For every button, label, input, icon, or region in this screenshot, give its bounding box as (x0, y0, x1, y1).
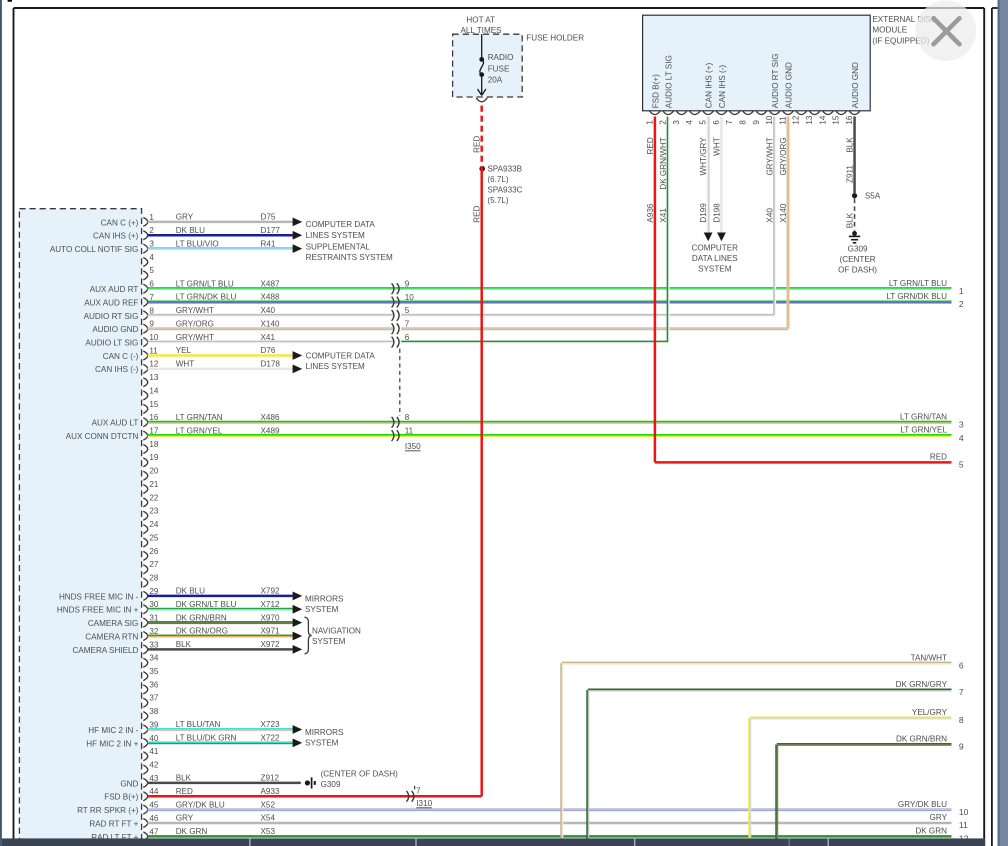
svg-text:NAVIGATION: NAVIGATION (312, 626, 361, 635)
svg-text:13: 13 (149, 373, 159, 382)
svg-text:X722: X722 (261, 734, 280, 743)
svg-text:GRY: GRY (176, 213, 194, 222)
svg-text:DK GRN/WHT: DK GRN/WHT (659, 137, 668, 189)
svg-text:GRY/WHT: GRY/WHT (176, 333, 214, 342)
svg-text:DK GRN: DK GRN (915, 826, 947, 835)
svg-text:YEL/GRY: YEL/GRY (912, 708, 948, 717)
svg-text:4: 4 (149, 253, 154, 262)
svg-text:LT BLU/DK GRN: LT BLU/DK GRN (176, 734, 237, 743)
svg-text:44: 44 (149, 787, 159, 796)
svg-text:3: 3 (959, 419, 964, 429)
svg-text:LINES SYSTEM: LINES SYSTEM (306, 231, 365, 240)
svg-text:6: 6 (712, 120, 721, 125)
svg-text:11: 11 (149, 346, 158, 355)
svg-text:X54: X54 (261, 814, 276, 823)
svg-text:10: 10 (405, 293, 415, 302)
svg-text:16: 16 (845, 115, 854, 125)
svg-text:COMPUTER DATA: COMPUTER DATA (306, 220, 376, 229)
svg-text:WHT: WHT (176, 360, 195, 369)
svg-text:2: 2 (149, 226, 154, 235)
svg-text:CAN IHS (+): CAN IHS (+) (705, 63, 714, 109)
svg-text:X53: X53 (261, 827, 276, 836)
svg-text:Z912: Z912 (261, 774, 280, 783)
svg-text:SPA933C: SPA933C (487, 186, 522, 195)
svg-text:GRY/ORG: GRY/ORG (779, 137, 788, 175)
svg-text:AUDIO RT SIG: AUDIO RT SIG (84, 312, 139, 321)
svg-text:22: 22 (149, 493, 159, 502)
svg-text:23: 23 (149, 507, 159, 516)
svg-text:RT RR SPKR (+): RT RR SPKR (+) (77, 806, 139, 815)
svg-text:BLK: BLK (176, 640, 192, 649)
svg-text:7: 7 (405, 320, 410, 329)
svg-text:6: 6 (959, 660, 964, 670)
svg-text:G309: G309 (848, 245, 868, 254)
svg-text:37: 37 (149, 694, 159, 703)
svg-text:A936: A936 (646, 203, 655, 222)
svg-text:X140: X140 (261, 319, 280, 328)
svg-text:2: 2 (959, 299, 964, 309)
svg-text:3: 3 (672, 120, 681, 125)
svg-text:RED: RED (472, 206, 481, 223)
svg-text:I350: I350 (405, 442, 421, 451)
svg-text:CAN IHS (+): CAN IHS (+) (93, 232, 139, 241)
svg-text:28: 28 (149, 573, 159, 582)
svg-text:LT GRN/DK BLU: LT GRN/DK BLU (176, 293, 237, 302)
svg-text:14: 14 (149, 386, 159, 395)
svg-text:15: 15 (832, 115, 841, 125)
svg-text:HF MIC 2 IN +: HF MIC 2 IN + (86, 739, 138, 748)
svg-text:41: 41 (149, 747, 159, 756)
svg-text:DK BLU: DK BLU (176, 226, 205, 235)
svg-text:10: 10 (959, 807, 969, 817)
svg-text:X712: X712 (261, 600, 280, 609)
svg-text:RESTRAINTS SYSTEM: RESTRAINTS SYSTEM (306, 253, 393, 262)
svg-text:12: 12 (792, 115, 801, 125)
svg-text:GND: GND (120, 779, 138, 788)
svg-text:AUDIO RT SIG: AUDIO RT SIG (771, 53, 780, 108)
svg-text:X140: X140 (779, 203, 788, 222)
svg-text:20: 20 (149, 467, 159, 476)
svg-text:AUTO COLL NOTIF SIG: AUTO COLL NOTIF SIG (50, 245, 139, 254)
svg-text:19: 19 (149, 453, 159, 462)
svg-text:11: 11 (959, 820, 968, 830)
svg-text:25: 25 (149, 533, 159, 542)
svg-text:X41: X41 (659, 208, 668, 223)
svg-text:LT GRN/YEL: LT GRN/YEL (900, 426, 947, 435)
svg-text:DATA LINES: DATA LINES (692, 254, 738, 263)
svg-text:34: 34 (149, 654, 159, 663)
svg-text:G309: G309 (321, 780, 341, 789)
svg-text:(CENTER: (CENTER (840, 255, 876, 264)
svg-text:X40: X40 (261, 306, 276, 315)
svg-text:8: 8 (959, 715, 964, 725)
svg-text:CAMERA SHIELD: CAMERA SHIELD (72, 646, 138, 655)
svg-text:10: 10 (765, 115, 774, 125)
svg-text:Z911: Z911 (846, 165, 855, 183)
svg-text:SPA933B: SPA933B (487, 165, 522, 174)
svg-text:X41: X41 (261, 333, 276, 342)
svg-text:CAN C (+): CAN C (+) (101, 218, 139, 227)
svg-text:7: 7 (959, 687, 964, 697)
svg-text:33: 33 (149, 640, 159, 649)
svg-text:LT GRN/TAN: LT GRN/TAN (176, 413, 223, 422)
svg-text:X971: X971 (261, 627, 280, 636)
svg-text:AUDIO GND: AUDIO GND (92, 325, 138, 334)
svg-text:D76: D76 (261, 346, 276, 355)
svg-text:GRY/WHT: GRY/WHT (766, 137, 775, 175)
svg-text:5: 5 (959, 460, 964, 470)
svg-text:7: 7 (416, 786, 421, 795)
svg-text:D75: D75 (261, 213, 276, 222)
svg-text:38: 38 (149, 707, 159, 716)
svg-text:DK BLU: DK BLU (176, 587, 205, 596)
svg-text:AUX AUD RT: AUX AUD RT (90, 285, 139, 294)
svg-text:X723: X723 (261, 720, 280, 729)
svg-text:TAN/WHT: TAN/WHT (911, 653, 947, 662)
svg-text:SYSTEM: SYSTEM (305, 739, 339, 748)
svg-text:HF MIC 2 IN -: HF MIC 2 IN - (88, 726, 138, 735)
svg-text:LT BLU/TAN: LT BLU/TAN (176, 720, 221, 729)
svg-text:DK GRN/BRN: DK GRN/BRN (176, 613, 227, 622)
svg-text:D178: D178 (261, 360, 281, 369)
svg-text:CAMERA SIG: CAMERA SIG (88, 619, 139, 628)
svg-text:14: 14 (818, 115, 827, 125)
svg-text:LT GRN/DK BLU: LT GRN/DK BLU (886, 292, 947, 301)
svg-text:FUSE HOLDER: FUSE HOLDER (526, 33, 584, 42)
svg-text:D177: D177 (261, 226, 281, 235)
svg-text:BLK: BLK (176, 774, 192, 783)
svg-text:A933: A933 (261, 787, 280, 796)
svg-text:29: 29 (149, 587, 159, 596)
svg-text:46: 46 (149, 814, 159, 823)
svg-text:(CENTER OF DASH): (CENTER OF DASH) (321, 769, 398, 778)
svg-text:AUX CONN DTCTN: AUX CONN DTCTN (66, 432, 139, 441)
svg-text:LT BLU/VIO: LT BLU/VIO (176, 239, 219, 248)
svg-text:26: 26 (149, 547, 159, 556)
svg-text:12: 12 (149, 360, 159, 369)
svg-text:AUX AUD LT: AUX AUD LT (92, 419, 139, 428)
svg-text:DK GRN/ORG: DK GRN/ORG (176, 627, 228, 636)
svg-text:9: 9 (752, 120, 761, 125)
svg-text:RED: RED (930, 453, 947, 462)
svg-text:GRY: GRY (176, 814, 194, 823)
svg-text:CAN IHS (-): CAN IHS (-) (718, 65, 727, 109)
svg-text:5: 5 (149, 266, 154, 275)
svg-text:RED: RED (472, 136, 481, 153)
svg-text:COMPUTER DATA: COMPUTER DATA (306, 352, 376, 361)
svg-text:7: 7 (725, 120, 734, 125)
svg-text:X486: X486 (261, 413, 280, 422)
svg-text:43: 43 (149, 774, 159, 783)
svg-text:BLK: BLK (846, 212, 855, 228)
svg-text:11: 11 (778, 116, 787, 125)
svg-text:WHT/GRY: WHT/GRY (699, 137, 708, 176)
svg-text:SYSTEM: SYSTEM (698, 265, 732, 274)
svg-text:S5A: S5A (865, 192, 881, 201)
svg-text:AUDIO GND: AUDIO GND (851, 62, 860, 108)
svg-text:(5.7L): (5.7L) (487, 196, 509, 205)
svg-text:CAMERA RTN: CAMERA RTN (85, 632, 138, 641)
svg-text:21: 21 (149, 480, 159, 489)
svg-text:D198: D198 (712, 203, 721, 223)
svg-text:(6.7L): (6.7L) (487, 175, 509, 184)
svg-text:OF DASH): OF DASH) (838, 266, 877, 275)
svg-text:AUDIO LT SIG: AUDIO LT SIG (85, 339, 138, 348)
svg-text:LINES SYSTEM: LINES SYSTEM (306, 362, 365, 371)
svg-text:FSD B(+): FSD B(+) (651, 74, 660, 108)
svg-text:FSD B(+): FSD B(+) (104, 793, 138, 802)
svg-text:X972: X972 (261, 640, 280, 649)
svg-text:COMPUTER: COMPUTER (692, 244, 739, 253)
svg-text:MIRRORS: MIRRORS (305, 595, 344, 604)
svg-text:13: 13 (805, 115, 814, 125)
svg-text:LT GRN/TAN: LT GRN/TAN (900, 412, 947, 421)
svg-text:8: 8 (738, 120, 747, 125)
svg-text:35: 35 (149, 667, 159, 676)
svg-text:2: 2 (659, 120, 668, 125)
svg-text:11: 11 (405, 426, 414, 435)
svg-text:LT GRN/LT BLU: LT GRN/LT BLU (889, 279, 947, 288)
svg-text:MIRRORS: MIRRORS (305, 728, 344, 737)
svg-text:GRY/DK BLU: GRY/DK BLU (898, 800, 947, 809)
svg-text:SUPPLEMENTAL: SUPPLEMENTAL (306, 243, 371, 252)
svg-text:MODULE: MODULE (872, 26, 907, 35)
svg-text:AUDIO LT SIG: AUDIO LT SIG (665, 55, 674, 108)
svg-text:DK GRN: DK GRN (176, 827, 208, 836)
svg-text:47: 47 (149, 827, 159, 836)
svg-text:CAN IHS (-): CAN IHS (-) (95, 365, 139, 374)
svg-text:9: 9 (959, 742, 964, 752)
svg-text:5: 5 (699, 120, 708, 125)
svg-text:ALL TIMES: ALL TIMES (460, 26, 502, 35)
svg-text:HOT AT: HOT AT (466, 15, 495, 24)
svg-text:9: 9 (405, 279, 410, 288)
svg-text:X970: X970 (261, 613, 280, 622)
svg-text:X792: X792 (261, 587, 280, 596)
svg-text:X487: X487 (261, 279, 280, 288)
svg-text:AUX AUD REF: AUX AUD REF (84, 298, 138, 307)
svg-text:4: 4 (959, 433, 964, 443)
svg-text:RAD RT FT +: RAD RT FT + (89, 819, 138, 828)
svg-text:HNDS FREE MIC IN -: HNDS FREE MIC IN - (59, 592, 139, 601)
svg-text:5: 5 (405, 306, 410, 315)
svg-text:15: 15 (149, 400, 159, 409)
svg-text:8: 8 (405, 413, 410, 422)
svg-text:SYSTEM: SYSTEM (305, 605, 339, 614)
svg-text:FUSE: FUSE (488, 64, 510, 73)
svg-text:AUDIO GND: AUDIO GND (784, 62, 793, 108)
svg-text:CAN C (-): CAN C (-) (103, 352, 139, 361)
svg-text:1: 1 (959, 286, 964, 296)
svg-text:6: 6 (405, 333, 410, 342)
svg-text:DK GRN/BRN: DK GRN/BRN (896, 735, 947, 744)
svg-text:4: 4 (685, 120, 694, 125)
svg-text:42: 42 (149, 760, 159, 769)
svg-text:GRY/DK BLU: GRY/DK BLU (176, 800, 225, 809)
svg-text:27: 27 (149, 560, 159, 569)
svg-text:24: 24 (149, 520, 159, 529)
svg-text:GRY/WHT: GRY/WHT (176, 306, 214, 315)
svg-text:X52: X52 (261, 800, 276, 809)
svg-text:1: 1 (149, 213, 154, 222)
svg-text:1: 1 (645, 120, 654, 125)
svg-text:SYSTEM: SYSTEM (312, 637, 346, 646)
svg-text:I310: I310 (416, 799, 432, 808)
svg-text:DK GRN/LT BLU: DK GRN/LT BLU (176, 600, 237, 609)
svg-text:D199: D199 (699, 203, 708, 223)
svg-text:18: 18 (149, 440, 159, 449)
svg-text:RADIO: RADIO (488, 53, 514, 62)
svg-text:36: 36 (149, 680, 159, 689)
svg-text:LT GRN/LT BLU: LT GRN/LT BLU (176, 279, 234, 288)
svg-text:X488: X488 (261, 293, 280, 302)
svg-text:GRY/ORG: GRY/ORG (176, 319, 214, 328)
svg-text:GRY: GRY (930, 813, 948, 822)
svg-text:WHT: WHT (712, 137, 721, 156)
svg-text:DK GRN/GRY: DK GRN/GRY (896, 680, 948, 689)
svg-text:RED: RED (176, 787, 193, 796)
svg-text:X40: X40 (766, 208, 775, 223)
svg-text:R41: R41 (261, 239, 276, 248)
svg-text:LT GRN/YEL: LT GRN/YEL (176, 426, 223, 435)
svg-text:20A: 20A (488, 76, 503, 85)
svg-text:BLK: BLK (846, 137, 855, 153)
svg-text:RED: RED (646, 137, 655, 154)
svg-text:HNDS FREE MIC IN +: HNDS FREE MIC IN + (57, 606, 139, 615)
svg-text:YEL: YEL (176, 346, 192, 355)
svg-text:X489: X489 (261, 426, 280, 435)
